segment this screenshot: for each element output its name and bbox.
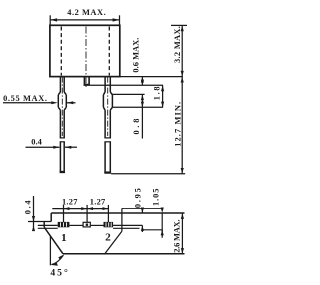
svg-text:1: 1 bbox=[61, 233, 67, 244]
svg-text:0.8: 0.8 bbox=[132, 119, 141, 135]
svg-text:0.4: 0.4 bbox=[24, 200, 33, 215]
svg-text:45°: 45° bbox=[50, 268, 68, 279]
svg-text:0.55 MAX.: 0.55 MAX. bbox=[3, 94, 47, 103]
svg-text:0.6 MAX.: 0.6 MAX. bbox=[132, 38, 141, 73]
svg-text:0.4: 0.4 bbox=[31, 138, 42, 147]
svg-text:2: 2 bbox=[105, 233, 111, 244]
svg-text:12.7 MIN.: 12.7 MIN. bbox=[173, 102, 182, 147]
svg-text:1.27: 1.27 bbox=[90, 198, 106, 207]
svg-text:2.6 MAX.: 2.6 MAX. bbox=[172, 219, 181, 253]
svg-text:1.05: 1.05 bbox=[152, 189, 161, 207]
svg-text:3.2 MAX.: 3.2 MAX. bbox=[173, 26, 182, 63]
svg-text:0.95: 0.95 bbox=[133, 188, 142, 208]
svg-text:4.2 MAX.: 4.2 MAX. bbox=[67, 8, 106, 17]
svg-text:1.8: 1.8 bbox=[152, 86, 161, 100]
svg-text:1.27: 1.27 bbox=[62, 198, 78, 207]
